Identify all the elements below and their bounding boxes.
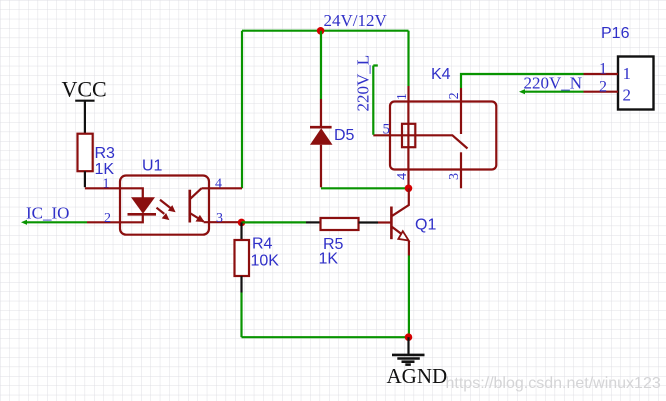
wire D5 to Q1 collector node <box>321 187 409 189</box>
LED light arrow a <box>160 200 171 209</box>
diode D5 <box>320 31 322 99</box>
U1 pin 3 <box>204 221 242 223</box>
svg-text:4: 4 <box>215 177 222 192</box>
wire 220V_L <box>373 66 378 135</box>
K4 contact <box>460 102 462 135</box>
resistor R5 <box>321 218 359 230</box>
K4 pin 4 <box>407 170 409 186</box>
svg-text:5: 5 <box>383 122 391 138</box>
svg-text:10K: 10K <box>251 253 280 270</box>
node 24V/12V junction <box>317 27 325 35</box>
node pin3/R4 junction <box>238 219 246 227</box>
svg-text:Q1: Q1 <box>415 217 436 234</box>
svg-text:IC_IO: IC_IO <box>26 203 69 222</box>
svg-text:24V/12V: 24V/12V <box>324 11 388 30</box>
svg-text:2: 2 <box>599 79 607 96</box>
K4 pin 2 <box>460 88 462 102</box>
wire K4 pin2 to P16 pin1 <box>461 74 584 88</box>
wire bottom rail <box>242 336 409 338</box>
svg-text:1: 1 <box>599 61 607 78</box>
wire R3 to U1 pin1 <box>84 171 86 187</box>
svg-text:220V_L: 220V_L <box>354 55 373 112</box>
K4 pin 1 <box>407 86 409 102</box>
svg-text:220V_N: 220V_N <box>524 73 583 92</box>
wire 220V_N <box>522 91 584 93</box>
resistor R4 <box>235 240 250 276</box>
svg-text:P16: P16 <box>601 25 630 42</box>
svg-text:1: 1 <box>395 93 410 100</box>
node Q1 collector junction <box>405 185 413 193</box>
svg-text:R3: R3 <box>95 145 116 162</box>
svg-text:https://blog.csdn.net/winux123: https://blog.csdn.net/winux123 <box>446 375 661 392</box>
wire IC_IO <box>24 221 87 223</box>
svg-text:2: 2 <box>104 211 111 226</box>
relay K4 body <box>390 102 496 170</box>
svg-text:1K: 1K <box>95 161 115 178</box>
svg-text:2: 2 <box>623 86 632 105</box>
U1 pin 2 <box>87 215 143 222</box>
svg-text:U1: U1 <box>142 158 163 175</box>
svg-text:4: 4 <box>395 173 410 180</box>
wire R5 to Q1 base <box>359 221 379 223</box>
svg-text:2: 2 <box>447 92 462 99</box>
P16 pin 1 <box>584 73 619 75</box>
LED of U1 <box>131 197 155 214</box>
power symbol VCC <box>75 101 94 134</box>
wire Q1 emitter down <box>408 241 410 256</box>
P16 pin 2 <box>584 91 619 93</box>
phototransistor of U1 <box>189 190 192 223</box>
optocoupler U1 body <box>120 176 209 235</box>
U1 pin 4 <box>202 187 243 189</box>
node bottom junction <box>405 333 413 341</box>
svg-text:1: 1 <box>103 177 110 192</box>
wire drop to K4 pin1 <box>407 31 409 86</box>
U1 pin 1 <box>85 188 143 197</box>
wire left drop to U1 pin4 <box>241 31 243 189</box>
svg-text:1: 1 <box>623 64 632 83</box>
svg-text:K4: K4 <box>431 66 451 83</box>
transistor Q1 <box>390 207 393 240</box>
svg-text:3: 3 <box>216 211 223 226</box>
svg-text:R4: R4 <box>252 236 273 253</box>
svg-text:D5: D5 <box>334 127 355 144</box>
ground AGND <box>407 337 409 354</box>
LED light arrow b <box>157 208 165 214</box>
wire top 24V rail <box>242 30 409 32</box>
wire R4 down to bottom rail <box>240 276 242 293</box>
svg-text:AGND: AGND <box>387 364 448 388</box>
K4 coil <box>407 102 409 170</box>
svg-text:3: 3 <box>447 173 462 180</box>
wire pin3 junction to R5 <box>242 221 307 223</box>
wire junction to R4 <box>240 222 242 240</box>
svg-text:VCC: VCC <box>62 77 107 102</box>
resistor R3 <box>78 134 93 172</box>
svg-text:1K: 1K <box>319 251 339 268</box>
